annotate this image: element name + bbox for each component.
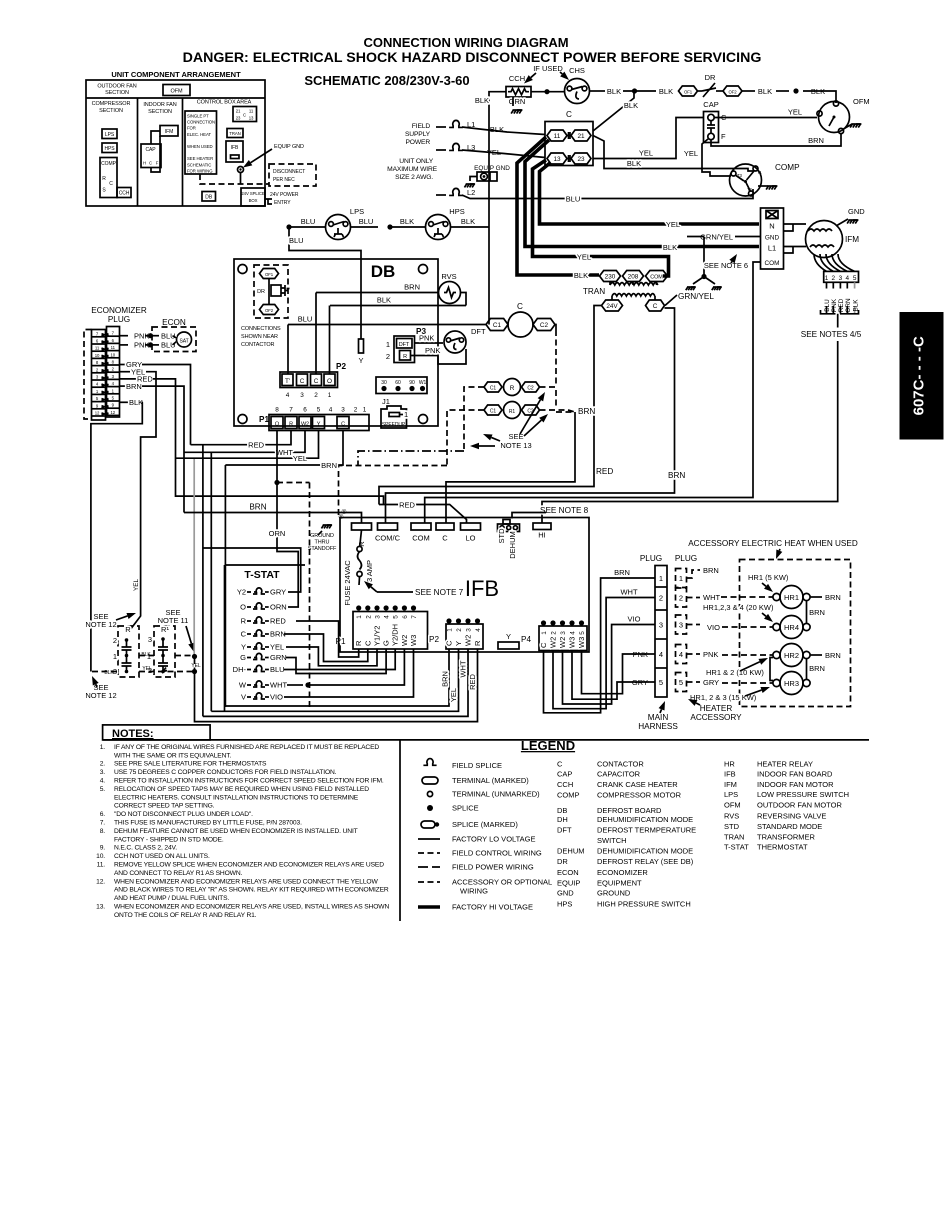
svg-text:C: C	[149, 161, 152, 166]
svg-text:T-STAT: T-STAT	[244, 569, 280, 581]
svg-text:FIELD SPLICE: FIELD SPLICE	[452, 761, 502, 770]
svg-text:SECTION: SECTION	[99, 108, 123, 114]
TRAN box	[227, 129, 243, 138]
wire dashed junction to solid BRN down to C tab	[555, 390, 557, 408]
svg-text:CONNECTION: CONNECTION	[187, 120, 215, 125]
svg-text:RVS: RVS	[441, 272, 456, 281]
svg-text:BLK: BLK	[104, 670, 114, 676]
svg-text:1: 1	[113, 652, 117, 661]
svg-text:STANDARD MODE: STANDARD MODE	[757, 822, 822, 831]
svg-text:EQUIP GND: EQUIP GND	[274, 144, 304, 150]
svg-text:R: R	[125, 625, 131, 634]
dashed wires around R and R1	[464, 387, 484, 451]
svg-text:C: C	[517, 302, 523, 311]
svg-text:10.: 10.	[96, 853, 105, 860]
svg-text:TERMINAL (UNMARKED): TERMINAL (UNMARKED)	[452, 790, 540, 799]
svg-text:BLU: BLU	[359, 217, 374, 226]
svg-text:WHEN USED: WHEN USED	[187, 144, 213, 149]
wire RED DB P1 R to economizer	[191, 431, 292, 445]
svg-text:SEE NOTE 7: SEE NOTE 7	[415, 588, 464, 597]
svg-text:ACCESSORY OR OPTIONAL: ACCESSORY OR OPTIONAL	[452, 878, 552, 887]
svg-text:HARNESS: HARNESS	[638, 722, 678, 731]
svg-text:DH-: DH-	[233, 665, 247, 674]
svg-text:DEHUM: DEHUM	[508, 531, 517, 559]
legend field power wiring line	[418, 866, 440, 868]
svg-text:GRN/YEL: GRN/YEL	[678, 292, 714, 301]
svg-text:Y: Y	[317, 422, 321, 428]
svg-text:3: 3	[839, 275, 843, 282]
svg-text:BRN: BRN	[321, 461, 337, 470]
wire BLK DB to RVS	[330, 305, 466, 307]
svg-text:DR: DR	[705, 73, 716, 82]
svg-text:CCH: CCH	[557, 780, 573, 789]
svg-text:IFM: IFM	[724, 780, 737, 789]
svg-text:C1: C1	[490, 409, 497, 415]
svg-text:CRANK CASE HEATER: CRANK CASE HEATER	[597, 780, 678, 789]
svg-text:SUPPLY: SUPPLY	[405, 131, 431, 138]
wire GRN YEL to IFM GND	[735, 236, 761, 238]
svg-text:TERMINAL (MARKED): TERMINAL (MARKED)	[452, 776, 529, 785]
CCH box	[117, 188, 131, 198]
svg-text:PNK: PNK	[425, 346, 440, 355]
svg-text:COM: COM	[412, 534, 430, 543]
svg-text:BRN: BRN	[404, 283, 420, 292]
svg-text:FACTORY - SHIPPED IN STD MODE.: FACTORY - SHIPPED IN STD MODE.	[114, 836, 224, 843]
svg-text:CAPACITOR: CAPACITOR	[597, 769, 641, 778]
svg-text:STD: STD	[724, 822, 740, 831]
svg-text:3 AMP: 3 AMP	[365, 560, 374, 582]
svg-text:BLK: BLK	[852, 299, 859, 312]
svg-text:WHT: WHT	[276, 448, 293, 457]
IFM speed tap leads	[814, 254, 827, 271]
svg-text:IFM: IFM	[165, 129, 173, 135]
svg-text:Y: Y	[358, 356, 363, 365]
svg-text:J1: J1	[382, 397, 390, 406]
svg-text:21: 21	[577, 133, 585, 140]
svg-text:BRN: BRN	[808, 136, 824, 145]
svg-text:COMP: COMP	[775, 163, 800, 172]
wire t-stat VIO V row to P1 pin W3	[284, 649, 414, 697]
svg-text:VIO: VIO	[628, 615, 641, 624]
terminal id box 21 23 C 11 13	[233, 107, 257, 122]
svg-text:SEE HEATER: SEE HEATER	[187, 156, 213, 161]
svg-text:1.: 1.	[100, 744, 106, 751]
R relay contacts	[484, 382, 502, 392]
svg-text:23: 23	[236, 116, 241, 121]
svg-text:FIELD: FIELD	[412, 123, 431, 130]
svg-text:L2: L2	[467, 188, 475, 197]
wire BLU splice to LPS	[286, 224, 291, 229]
svg-text:MAXIMUM WIRE: MAXIMUM WIRE	[387, 166, 438, 173]
svg-text:DISCONNECT: DISCONNECT	[273, 169, 305, 175]
speed selector pads 30 60 90 W1	[376, 377, 427, 394]
svg-text:IF USED: IF USED	[533, 64, 563, 73]
svg-text:HEATER: HEATER	[700, 704, 733, 713]
svg-text:TRAN: TRAN	[724, 832, 744, 841]
wire t-stat WHT W row to P1 pin W2	[287, 684, 303, 686]
svg-text:RED: RED	[248, 441, 264, 450]
svg-text:BRN: BRN	[668, 471, 685, 480]
svg-text:BLK: BLK	[475, 96, 489, 105]
svg-text:DEFROST TERMPERATURE: DEFROST TERMPERATURE	[597, 826, 696, 835]
svg-text:COMPRESSOR MOTOR: COMPRESSOR MOTOR	[597, 791, 682, 800]
svg-text:CHS: CHS	[569, 66, 585, 75]
legend terminal marked symbol	[422, 777, 438, 784]
svg-text:3: 3	[300, 392, 304, 399]
dashed wire BLK to relay R terminal 3	[92, 671, 118, 673]
svg-text:R: R	[102, 176, 106, 182]
svg-text:CCH NOT USED ON ALL UNITS.: CCH NOT USED ON ALL UNITS.	[114, 853, 210, 860]
svg-text:YEL: YEL	[577, 253, 591, 262]
svg-text:T-STAT: T-STAT	[724, 843, 749, 852]
svg-text:5: 5	[679, 678, 683, 687]
IFM speed tap wires dashed with labels	[826, 282, 828, 288]
wire IFM COM down to IFB COM tab	[425, 310, 753, 523]
svg-text:5: 5	[579, 631, 586, 635]
svg-text:3: 3	[659, 620, 663, 629]
svg-text:HR1: HR1	[784, 593, 799, 602]
svg-text:REFER TO INSTALLATION INSTRUCT: REFER TO INSTALLATION INSTRUCTIONS FOR C…	[114, 778, 384, 785]
svg-text:GND: GND	[557, 889, 574, 898]
svg-text:DANGER: ELECTRICAL SHOCK HAZA: DANGER: ELECTRICAL SHOCK HAZARD DISCONNE…	[183, 50, 762, 66]
svg-text:LOW PRESSURE SWITCH: LOW PRESSURE SWITCH	[757, 790, 849, 799]
svg-text:THIS FUSE IS MANUFACTURED BY L: THIS FUSE IS MANUFACTURED BY LITTLE FUSE…	[114, 820, 302, 827]
svg-text:ELECTRIC HEATERS. CONSULT INST: ELECTRIC HEATERS. CONSULT INSTALLATION I…	[114, 794, 359, 801]
svg-text:BLK: BLK	[400, 217, 414, 226]
svg-text:UNIT ONLY: UNIT ONLY	[399, 158, 433, 165]
svg-text:C: C	[300, 378, 305, 385]
svg-text:Y: Y	[506, 632, 511, 641]
wire C2 to BRN dashed down	[555, 325, 556, 331]
svg-text:DB: DB	[205, 195, 213, 201]
svg-text:Y: Y	[454, 641, 463, 646]
wire P4 pin3 loop to plug3 VIO	[563, 625, 656, 705]
svg-text:C: C	[566, 110, 572, 119]
svg-text:13.: 13.	[96, 904, 105, 911]
svg-text:CONTROL BOX AREA: CONTROL BOX AREA	[197, 100, 252, 106]
svg-text:SIZE 2 AWG.: SIZE 2 AWG.	[395, 174, 433, 181]
relay R coil dashed box	[118, 626, 139, 677]
svg-text:8: 8	[275, 407, 279, 414]
legend factory lo voltage line	[418, 838, 440, 840]
svg-text:BRN: BRN	[825, 651, 841, 660]
svg-text:FOR: FOR	[187, 126, 196, 131]
svg-text:4: 4	[286, 392, 290, 399]
svg-text:TRAN: TRAN	[229, 131, 240, 136]
wire IFM taps to IFB HI tab	[542, 470, 838, 523]
svg-text:WHT: WHT	[459, 660, 468, 677]
wire from P2 pin2 up to BRN	[315, 293, 317, 375]
wire IFM to CAP	[151, 131, 160, 144]
HR2 heater relay	[780, 644, 803, 667]
svg-text:W2: W2	[301, 422, 309, 428]
svg-text:DEHUMIDIFICATION MODE: DEHUMIDIFICATION MODE	[597, 847, 693, 856]
svg-text:YEL: YEL	[788, 108, 802, 117]
svg-text:L1: L1	[768, 244, 776, 253]
wire YEL 23 to CAP C	[593, 118, 704, 159]
svg-text:C: C	[445, 640, 454, 646]
svg-text:REVERSING VALVE: REVERSING VALVE	[757, 812, 826, 821]
svg-text:208: 208	[628, 274, 639, 281]
svg-text:1: 1	[541, 631, 548, 635]
ground thru standoff separator	[309, 483, 311, 713]
legend field control wiring line	[418, 852, 440, 854]
svg-text:G: G	[240, 653, 246, 662]
svg-text:IFM: IFM	[845, 235, 859, 244]
wire BRN right of HR2	[810, 654, 822, 656]
wire YEL DB P1 Y to left	[176, 431, 319, 459]
svg-text:NOTES:: NOTES:	[112, 728, 154, 740]
svg-text:DB: DB	[371, 262, 396, 281]
svg-text:SAT: SAT	[179, 339, 188, 345]
svg-text:V: V	[241, 693, 246, 702]
svg-text:BLK: BLK	[758, 87, 772, 96]
svg-text:BLK: BLK	[129, 398, 143, 407]
svg-text:H: H	[143, 161, 146, 166]
svg-text:YEL: YEL	[449, 688, 458, 702]
svg-text:6: 6	[303, 407, 307, 414]
svg-text:COMP: COMP	[557, 791, 580, 800]
dashed route to disconnect	[200, 174, 269, 184]
svg-text:CONTACTOR: CONTACTOR	[241, 342, 275, 348]
wire BLK contactor to COMP T1	[593, 136, 753, 172]
svg-text:1: 1	[386, 340, 390, 349]
DB defrost board box	[234, 259, 438, 426]
wire P4 pin1 loop to plug1 BRN	[544, 578, 656, 713]
svg-text:7: 7	[289, 407, 293, 414]
svg-text:24V: 24V	[606, 303, 618, 310]
svg-text:DEHUM FEATURE CANNOT BE USED W: DEHUM FEATURE CANNOT BE USED WHEN ECONOM…	[114, 828, 358, 835]
svg-text:4: 4	[846, 275, 850, 282]
svg-text:F: F	[721, 132, 726, 141]
svg-text:11: 11	[95, 346, 100, 351]
svg-text:CAP: CAP	[557, 769, 572, 778]
svg-text:9.: 9.	[100, 845, 106, 852]
legend terminal unmarked symbol	[427, 791, 432, 796]
IFM terminal strip 1 2 3 4 5	[824, 271, 859, 282]
svg-text:FIELD POWER WIRING: FIELD POWER WIRING	[452, 863, 534, 872]
svg-text:HR: HR	[724, 760, 735, 769]
svg-text:AND CONNECT TO RELAY R1 AS SHO: AND CONNECT TO RELAY R1 AS SHOWN.	[114, 870, 243, 877]
svg-text:YEL: YEL	[639, 149, 653, 158]
svg-text:W: W	[239, 681, 247, 690]
relay R1 coil dashed box	[154, 626, 175, 677]
svg-text:230: 230	[605, 274, 616, 281]
svg-text:CONNECTION WIRING DIAGRAM: CONNECTION WIRING DIAGRAM	[363, 35, 568, 50]
svg-text:YEL: YEL	[191, 663, 201, 669]
svg-text:BLK: BLK	[627, 159, 641, 168]
svg-text:90: 90	[409, 380, 415, 386]
svg-text:SPLICE (MARKED): SPLICE (MARKED)	[452, 820, 518, 829]
wire BLK CCH to CHS with splice	[531, 91, 565, 93]
svg-text:2: 2	[386, 352, 390, 361]
wire t-stat YEL Y row staircase to P1 pin Y1/Y2	[286, 647, 377, 666]
svg-text:WHEN ECONOMIZER AND ECONOMIZER: WHEN ECONOMIZER AND ECONOMIZER RELAYS AR…	[114, 878, 378, 885]
wire HR2 HR3 left terminals joined	[770, 658, 773, 681]
svg-text:HR1, 2 & 3 (15 KW): HR1, 2 & 3 (15 KW)	[690, 693, 757, 702]
svg-text:ECON: ECON	[557, 868, 579, 877]
svg-text:BLK: BLK	[574, 271, 588, 280]
wire BLU DB T' to C1	[288, 324, 486, 326]
IFB STD DEHUM connector	[503, 520, 510, 525]
svg-text:HR1 & 2 (10 KW): HR1 & 2 (10 KW)	[706, 668, 764, 677]
svg-text:HIGH PRESSURE SWITCH: HIGH PRESSURE SWITCH	[597, 900, 691, 909]
svg-text:UNIT COMPONENT ARRANGEMENT: UNIT COMPONENT ARRANGEMENT	[111, 70, 241, 79]
svg-text:HR1,2,3 & 4 (20 KW): HR1,2,3 & 4 (20 KW)	[703, 603, 774, 612]
svg-text:C1: C1	[490, 386, 497, 392]
svg-text:Y2: Y2	[237, 588, 246, 597]
svg-text:DEFROST RELAY (SEE DB): DEFROST RELAY (SEE DB)	[597, 857, 694, 866]
thick feeder diagonals from contactor	[517, 137, 599, 275]
svg-text:SEE NOTE 8: SEE NOTE 8	[540, 506, 589, 515]
svg-text:R: R	[241, 617, 247, 626]
svg-text:GRY: GRY	[270, 588, 286, 597]
svg-text:SPEEDUP: SPEEDUP	[382, 422, 406, 428]
black side tab 607C---C	[900, 312, 944, 440]
svg-text:WITH THE SAME OR ITS EQUIVALEN: WITH THE SAME OR ITS EQUIVALENT.	[114, 752, 231, 759]
svg-text:OUTDOOR FAN: OUTDOOR FAN	[97, 84, 136, 90]
COMP ground	[758, 185, 768, 187]
svg-text:BLK: BLK	[659, 87, 673, 96]
svg-text:CONTACTOR: CONTACTOR	[597, 760, 644, 769]
wire GRY economizer	[120, 364, 126, 366]
svg-text:BLK: BLK	[377, 296, 391, 305]
wire P4 pin5 loop to plug4 PNK	[582, 651, 650, 694]
svg-text:WHT: WHT	[703, 593, 720, 602]
svg-text:GRN/YEL: GRN/YEL	[700, 233, 733, 242]
svg-text:NOTE 13: NOTE 13	[500, 441, 531, 450]
wire t-stat BRN C row staircase to P1 pin C	[284, 634, 368, 662]
DB small box	[202, 192, 216, 202]
svg-text:PNK: PNK	[703, 650, 718, 659]
svg-text:3.: 3.	[100, 769, 106, 776]
HR3 heater relay	[780, 672, 803, 695]
svg-text:C: C	[539, 642, 548, 648]
svg-text:R¹: R¹	[161, 625, 169, 634]
svg-text:P2: P2	[336, 362, 346, 371]
wire BRN plug1	[687, 570, 701, 578]
svg-text:Y: Y	[241, 643, 246, 652]
svg-text:1: 1	[659, 574, 663, 583]
LPS box	[102, 129, 117, 139]
svg-text:2: 2	[551, 631, 558, 635]
svg-text:ORN: ORN	[270, 603, 287, 612]
svg-text:R1: R1	[509, 409, 516, 415]
svg-text:HR2: HR2	[784, 651, 799, 660]
OFM box	[163, 85, 190, 96]
svg-text:1: 1	[679, 574, 683, 583]
svg-text:VIO: VIO	[707, 623, 720, 632]
svg-text:3: 3	[148, 635, 152, 644]
svg-text:4.: 4.	[100, 778, 106, 785]
svg-text:23: 23	[577, 156, 585, 163]
svg-text:W2: W2	[549, 637, 558, 648]
svg-text:SPLICE: SPLICE	[452, 804, 479, 813]
svg-text:6.: 6.	[100, 811, 106, 818]
svg-text:HR4: HR4	[784, 623, 799, 632]
wires from IFB P2 pins down to bottom bundle	[225, 649, 449, 706]
svg-text:O: O	[240, 603, 246, 612]
svg-text:SCHEMATIC 208/230V-3-60: SCHEMATIC 208/230V-3-60	[304, 73, 469, 88]
svg-text:T': T'	[285, 378, 290, 385]
svg-text:4: 4	[329, 407, 333, 414]
wire t-stat RED R row staircase to P1 pin R	[296, 621, 359, 657]
wire YEL economizer	[120, 371, 131, 373]
svg-text:2: 2	[679, 593, 683, 602]
svg-text:BLU: BLU	[270, 665, 285, 674]
svg-text:TRAN: TRAN	[583, 287, 605, 296]
svg-text:ELEC. HEAT: ELEC. HEAT	[187, 132, 211, 137]
speed tap bracket	[821, 310, 859, 314]
svg-text:PNK: PNK	[419, 334, 434, 343]
svg-text:ORN: ORN	[845, 298, 852, 313]
svg-text:8.: 8.	[100, 828, 106, 835]
wire WHT DB P1 W2 to left	[184, 431, 305, 453]
svg-text:11: 11	[554, 133, 561, 140]
wire P4 pin4 to plug5 GRY	[572, 651, 649, 700]
HPS box	[102, 143, 117, 153]
svg-text:GND: GND	[848, 207, 865, 216]
contactor terminal 11	[547, 130, 567, 141]
svg-text:YEL: YEL	[293, 454, 307, 463]
svg-text:IFB: IFB	[724, 769, 736, 778]
svg-text:3: 3	[341, 407, 345, 414]
IFM motor circle	[806, 221, 843, 258]
24V splice box	[241, 188, 265, 206]
economizer plug columns	[92, 330, 106, 421]
svg-text:11: 11	[111, 345, 116, 350]
svg-text:R: R	[403, 354, 407, 360]
notes legend divider	[399, 740, 401, 921]
svg-text:1: 1	[356, 615, 363, 619]
svg-text:ENTRY: ENTRY	[274, 200, 291, 206]
svg-text:5: 5	[853, 275, 857, 282]
svg-text:AND BLACK WIRES TO RELAY "R" A: AND BLACK WIRES TO RELAY "R" AS SHOWN. R…	[114, 887, 389, 894]
notes title box	[103, 725, 211, 740]
svg-text:COM: COM	[765, 260, 780, 267]
svg-text:C: C	[314, 378, 319, 385]
svg-text:EQUIP: EQUIP	[557, 878, 580, 887]
svg-text:C1: C1	[493, 322, 502, 329]
svg-text:CCH: CCH	[119, 191, 130, 197]
svg-text:1: 1	[825, 275, 829, 282]
svg-text:4: 4	[659, 650, 663, 659]
wire RED TRAN 24V down to IFB LO	[379, 306, 602, 505]
svg-text:SEE NOTE 6: SEE NOTE 6	[704, 261, 748, 270]
svg-text:OF1: OF1	[265, 272, 274, 277]
svg-text:SHOWN NEAR: SHOWN NEAR	[241, 334, 278, 340]
svg-text:DFT: DFT	[399, 342, 410, 348]
wire OF2 to OFM	[742, 90, 755, 92]
svg-text:13: 13	[249, 116, 254, 121]
svg-text:Y1/Y2: Y1/Y2	[373, 626, 382, 646]
OFM ground	[844, 124, 853, 129]
svg-text:WHT: WHT	[620, 588, 637, 597]
svg-text:R: R	[510, 385, 515, 392]
wire PNK P3 DFT to DFT switch	[415, 342, 444, 344]
DFT defrost thermostat switch	[444, 331, 466, 353]
svg-text:60: 60	[395, 380, 401, 386]
svg-text:NOTE 12: NOTE 12	[85, 620, 116, 629]
svg-text:DR: DR	[557, 857, 568, 866]
IFM plug box	[761, 208, 784, 269]
svg-text:CONNECTIONS: CONNECTIONS	[241, 326, 281, 332]
svg-text:ECONOMIZER: ECONOMIZER	[597, 868, 648, 877]
svg-text:YEL: YEL	[133, 579, 140, 592]
svg-text:STD: STD	[497, 528, 506, 544]
svg-text:FUSE 24VAC: FUSE 24VAC	[343, 560, 352, 606]
svg-text:C: C	[341, 422, 345, 428]
